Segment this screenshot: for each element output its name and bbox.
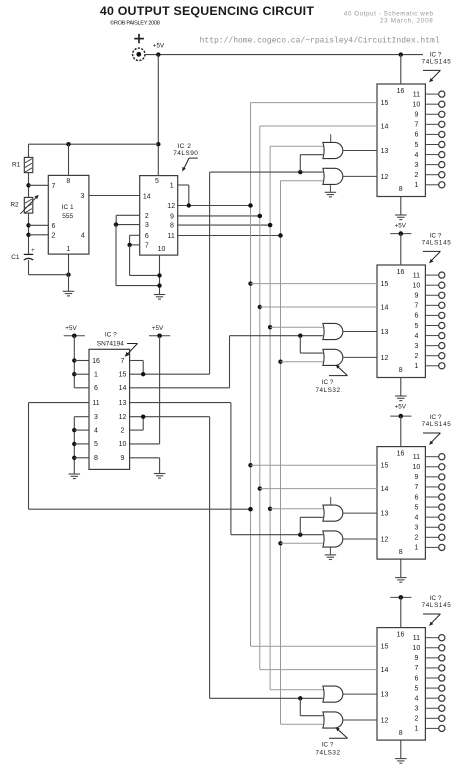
svg-text:11: 11 xyxy=(413,454,420,461)
svg-text:74LS32: 74LS32 xyxy=(315,750,340,757)
svg-text:2: 2 xyxy=(414,353,418,360)
svg-text:3: 3 xyxy=(94,414,98,421)
svg-text:3: 3 xyxy=(414,343,418,350)
svg-text:1: 1 xyxy=(94,372,98,379)
svg-text:IC ?: IC ? xyxy=(430,414,442,421)
svg-text:74LS145: 74LS145 xyxy=(422,421,452,428)
svg-text:+: + xyxy=(31,248,35,254)
svg-text:7: 7 xyxy=(121,358,125,365)
svg-text:13: 13 xyxy=(381,511,389,518)
svg-text:6: 6 xyxy=(94,385,98,392)
svg-text:4: 4 xyxy=(414,333,418,340)
svg-text:11: 11 xyxy=(168,233,175,240)
svg-text:8: 8 xyxy=(399,367,403,374)
svg-text:3: 3 xyxy=(414,162,418,169)
svg-text:11: 11 xyxy=(413,635,420,642)
svg-text:12: 12 xyxy=(381,718,389,725)
svg-text:R2: R2 xyxy=(10,201,19,208)
svg-text:74LS90: 74LS90 xyxy=(173,150,198,157)
svg-text:6: 6 xyxy=(414,132,418,139)
svg-text:11: 11 xyxy=(413,272,420,279)
svg-text:14: 14 xyxy=(143,194,151,201)
svg-text:7: 7 xyxy=(145,242,149,249)
svg-text:6: 6 xyxy=(52,223,56,230)
svg-text:10: 10 xyxy=(413,101,421,108)
svg-text:14: 14 xyxy=(119,385,127,392)
svg-text:IC ?: IC ? xyxy=(322,379,334,386)
svg-text:12: 12 xyxy=(381,174,389,181)
svg-text:16: 16 xyxy=(397,450,405,457)
svg-text:8: 8 xyxy=(399,549,403,556)
svg-text:2: 2 xyxy=(414,716,418,723)
svg-text:74LS145: 74LS145 xyxy=(422,59,452,66)
svg-text:3: 3 xyxy=(145,222,149,229)
svg-text:4: 4 xyxy=(414,514,418,521)
svg-text:C1: C1 xyxy=(11,254,20,261)
svg-text:5: 5 xyxy=(94,441,98,448)
svg-text:13: 13 xyxy=(119,400,127,407)
svg-text:IC ?: IC ? xyxy=(430,232,442,239)
svg-text:2: 2 xyxy=(414,535,418,542)
svg-text:6: 6 xyxy=(414,313,418,320)
svg-text:9: 9 xyxy=(170,213,174,220)
svg-text:4: 4 xyxy=(94,427,98,434)
svg-text:14: 14 xyxy=(381,124,389,131)
svg-text:16: 16 xyxy=(92,358,100,365)
svg-text:7: 7 xyxy=(52,183,56,190)
svg-text:3: 3 xyxy=(80,193,84,200)
svg-text:SN74194: SN74194 xyxy=(97,341,124,348)
svg-text:14: 14 xyxy=(381,486,389,493)
svg-text:8: 8 xyxy=(66,178,70,185)
svg-text:13: 13 xyxy=(381,148,389,155)
svg-text:13: 13 xyxy=(381,692,389,699)
svg-text:1: 1 xyxy=(66,246,70,253)
svg-text:6: 6 xyxy=(145,233,149,240)
svg-text:IC ?: IC ? xyxy=(105,331,117,338)
svg-text:10: 10 xyxy=(413,282,421,289)
svg-text:15: 15 xyxy=(381,281,389,288)
svg-text:10: 10 xyxy=(119,441,127,448)
svg-text:8: 8 xyxy=(399,186,403,193)
svg-text:40 OUTPUT SEQUENCING CIRCUIT: 40 OUTPUT SEQUENCING CIRCUIT xyxy=(100,4,314,18)
svg-text:IC ?: IC ? xyxy=(430,595,442,602)
svg-text:74LS32: 74LS32 xyxy=(315,387,340,394)
svg-text:IC 1: IC 1 xyxy=(62,204,74,211)
svg-text:15: 15 xyxy=(381,100,389,107)
svg-text:16: 16 xyxy=(397,269,405,276)
svg-text:12: 12 xyxy=(381,355,389,362)
svg-text:13: 13 xyxy=(381,329,389,336)
svg-text:2: 2 xyxy=(121,427,125,434)
svg-text:9: 9 xyxy=(121,455,125,462)
svg-text:10: 10 xyxy=(158,246,166,253)
svg-text:9: 9 xyxy=(414,112,418,119)
svg-text:9: 9 xyxy=(414,293,418,300)
svg-text:4: 4 xyxy=(414,152,418,159)
svg-text:6: 6 xyxy=(414,494,418,501)
svg-text:http://home.cogeco.ca/~rpaisle: http://home.cogeco.ca/~rpaisley4/Circuit… xyxy=(200,36,440,45)
svg-text:7: 7 xyxy=(414,665,418,672)
svg-text:2: 2 xyxy=(145,213,149,220)
svg-text:14: 14 xyxy=(381,305,389,312)
svg-text:IC ?: IC ? xyxy=(430,51,442,58)
svg-text:9: 9 xyxy=(414,474,418,481)
svg-text:+5V: +5V xyxy=(152,325,164,332)
svg-text:1: 1 xyxy=(414,545,418,552)
svg-text:©ROB PAISLEY 2008: ©ROB PAISLEY 2008 xyxy=(110,20,160,27)
svg-text:IC 2: IC 2 xyxy=(177,143,191,150)
svg-text:5: 5 xyxy=(414,142,418,149)
svg-text:15: 15 xyxy=(381,463,389,470)
svg-text:16: 16 xyxy=(397,631,405,638)
svg-text:12: 12 xyxy=(167,203,175,210)
svg-text:8: 8 xyxy=(94,455,98,462)
svg-text:555: 555 xyxy=(62,213,73,220)
svg-text:1: 1 xyxy=(170,183,174,190)
svg-text:+5V: +5V xyxy=(65,325,77,332)
svg-text:12: 12 xyxy=(119,414,127,421)
svg-text:5: 5 xyxy=(414,685,418,692)
svg-text:2: 2 xyxy=(52,232,56,239)
svg-text:3: 3 xyxy=(414,706,418,713)
svg-text:8: 8 xyxy=(399,730,403,737)
svg-text:4: 4 xyxy=(414,695,418,702)
svg-text:10: 10 xyxy=(413,645,421,652)
svg-text:8: 8 xyxy=(170,223,174,230)
svg-text:11: 11 xyxy=(413,91,420,98)
svg-text:12: 12 xyxy=(381,537,389,544)
svg-text:1: 1 xyxy=(414,182,418,189)
svg-text:74LS145: 74LS145 xyxy=(422,602,452,609)
svg-text:5: 5 xyxy=(414,323,418,330)
svg-text:7: 7 xyxy=(414,122,418,129)
svg-text:4: 4 xyxy=(81,232,85,239)
svg-text:11: 11 xyxy=(92,400,99,407)
svg-text:10: 10 xyxy=(413,464,421,471)
svg-text:9: 9 xyxy=(414,655,418,662)
svg-text:+5V: +5V xyxy=(153,42,165,49)
svg-text:15: 15 xyxy=(381,644,389,651)
svg-text:23 March, 2008: 23 March, 2008 xyxy=(380,18,434,25)
svg-text:40 Output - Schematic web: 40 Output - Schematic web xyxy=(344,10,434,17)
svg-text:R1: R1 xyxy=(12,162,21,169)
svg-text:6: 6 xyxy=(414,675,418,682)
svg-text:+5V: +5V xyxy=(395,222,407,229)
svg-text:IC ?: IC ? xyxy=(322,741,334,748)
svg-text:+5V: +5V xyxy=(395,403,407,410)
svg-text:1: 1 xyxy=(414,363,418,370)
svg-text:5: 5 xyxy=(414,504,418,511)
svg-text:15: 15 xyxy=(119,372,127,379)
svg-text:2: 2 xyxy=(414,172,418,179)
svg-text:7: 7 xyxy=(414,303,418,310)
svg-text:1: 1 xyxy=(414,726,418,733)
svg-text:7: 7 xyxy=(414,484,418,491)
svg-text:3: 3 xyxy=(414,525,418,532)
svg-text:14: 14 xyxy=(381,667,389,674)
svg-text:5: 5 xyxy=(155,178,159,185)
svg-text:74LS145: 74LS145 xyxy=(422,240,452,247)
svg-text:16: 16 xyxy=(397,88,405,95)
